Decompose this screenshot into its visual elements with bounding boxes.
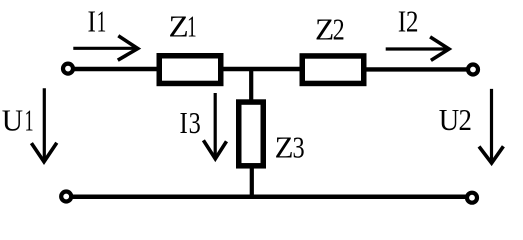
svg-text:1: 1 [97,4,107,39]
label Z3 [275,129,305,165]
label Z2 [315,12,345,48]
svg-text:3: 3 [292,131,304,166]
wire: Z1 to Z2 (through node with Z3 tap) [221,67,303,71]
impedance Z2 (series, rectangle body) [302,56,364,83]
label I2 [398,5,419,39]
terminal: port-2 return node (bottom-right) [467,193,477,203]
wire: bottom rail between bottom terminals [72,194,467,199]
svg-text:Z: Z [168,8,188,43]
svg-text:I: I [88,5,96,39]
label U2 [439,103,472,137]
terminal: port-1 return node (bottom-left) [61,192,71,202]
svg-text:Z: Z [275,129,294,164]
svg-text:Z: Z [315,12,334,47]
svg-text:3: 3 [189,106,201,141]
terminal: port-1 input node (top-left) [63,64,73,74]
svg-text:I: I [398,5,406,39]
svg-text:U: U [2,103,23,138]
current arrow I3 (down through Z3) [203,93,226,159]
wire: junction node down to Z3 top [249,67,253,102]
label I3 [180,106,201,141]
current arrow I2 (out of port 2) [386,37,449,61]
label Z1 [168,8,196,43]
svg-text:2: 2 [333,13,345,48]
label I1 [88,4,107,39]
svg-text:2: 2 [406,5,419,39]
impedance Z3 (shunt, rectangle body) [239,102,264,166]
svg-text:1: 1 [25,104,34,138]
svg-text:U: U [439,104,460,137]
wire: Z2 to top-right terminal [364,67,467,71]
svg-text:1: 1 [187,9,197,44]
svg-text:2: 2 [459,103,472,137]
wire: Z3 bottom down to bottom rail [250,166,254,197]
voltage arrow U1 (port 1 voltage, downward) [31,88,56,162]
wire: top-left terminal to Z1 [75,67,161,71]
current arrow I1 (into port 1) [73,36,138,60]
impedance Z1 (series, rectangle body) [159,56,221,84]
terminal: port-2 output node (top-right) [468,65,478,75]
svg-text:I: I [180,106,188,140]
voltage arrow U2 (port 2 voltage, downward) [479,89,503,163]
label U1 [2,103,34,138]
